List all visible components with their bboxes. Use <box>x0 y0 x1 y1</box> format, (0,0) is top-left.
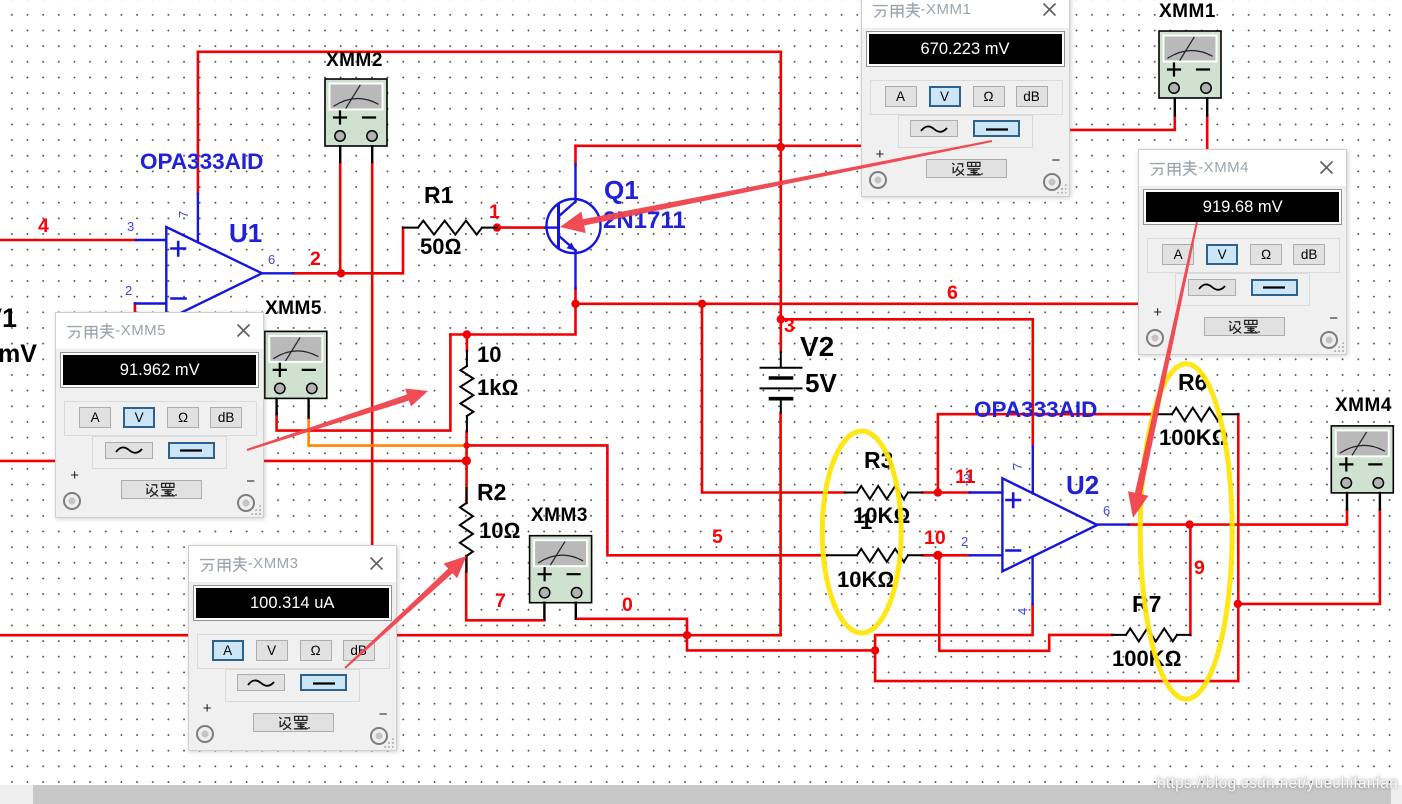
resistor R2 10ohm <box>460 488 473 572</box>
label XMM4 <box>1335 396 1392 415</box>
wire node 4 into U1 pin3 <box>0 239 136 242</box>
wire U1 pin7 riser <box>197 52 200 194</box>
wire R3 top right to pin3 junction <box>922 491 969 494</box>
resistor R1 50ohm <box>403 221 497 235</box>
node label 11 <box>955 468 976 488</box>
wire node 11 to R6 left <box>938 414 1157 492</box>
XMM5 stub wires <box>277 399 309 418</box>
label OPA333AID U2 <box>974 399 1097 422</box>
wire V1 feed left edge <box>0 460 55 463</box>
label V2 <box>800 333 834 361</box>
label 2N1711 <box>603 209 686 233</box>
red arrow to R2 <box>344 556 466 669</box>
wire node 1 R1 to Q1 base <box>497 226 546 229</box>
label U2 <box>1066 472 1099 498</box>
wire bottom rail <box>875 414 1238 681</box>
label R6 <box>1178 371 1207 394</box>
wire XMM2 right lead <box>371 162 374 544</box>
label XMM5 <box>265 299 322 318</box>
label 1kohm <box>477 377 518 399</box>
label 100K R7 <box>1112 648 1182 670</box>
multimeter window XMM3 <box>188 545 397 751</box>
wire V1 feed to R2 top junction <box>265 460 467 463</box>
wire emitter down to 1k top <box>450 304 575 335</box>
multimeter window XMM5 <box>55 312 264 518</box>
wire Q1 emitter stub <box>574 288 577 304</box>
wire top supply rail <box>198 50 781 53</box>
CJK glyph defs <box>0 0 1 1</box>
multimeter icon XMM4 <box>1331 426 1393 493</box>
wire node 5 from orange junction <box>467 445 827 555</box>
wire XMM4 minus run <box>1238 509 1380 604</box>
yellow ellipse around R6 R7 <box>1140 364 1232 699</box>
XMM2 stub wires <box>340 146 372 162</box>
resistor R3 bottom 10K <box>827 549 923 562</box>
wire R3 bottom right to pin2 junction <box>922 554 969 557</box>
resistor R7 100K <box>1112 628 1190 641</box>
node label 9 <box>1194 559 1205 579</box>
label R2 <box>477 481 506 504</box>
wire node 6 rail <box>576 302 1139 305</box>
label 10K bottom <box>837 569 894 591</box>
node label 0 <box>622 596 633 616</box>
label V1 partial <box>0 305 17 332</box>
red arrow to Q1 <box>560 140 992 233</box>
label 5V <box>805 370 837 396</box>
label 1 stray <box>860 511 872 533</box>
wire node 3 branch to R3 top <box>702 304 845 493</box>
label XMM3 <box>531 506 588 525</box>
resistor R3 top 10K <box>845 486 923 499</box>
wire XMM5 minus orange <box>309 418 467 446</box>
XMM3 stub wires <box>544 603 575 619</box>
label 10ohm <box>479 520 520 542</box>
wire V+ to U2 pin7 <box>781 319 1033 446</box>
wire node 10 to R7 left <box>939 555 1112 651</box>
XMM1 stub wires <box>1175 99 1207 116</box>
label R1 <box>424 184 453 207</box>
op-amp U2 <box>970 447 1129 604</box>
node label 5 <box>712 528 723 548</box>
op-amp U1 <box>135 194 293 320</box>
node label 2 <box>310 250 321 270</box>
node label 7 <box>495 592 506 612</box>
label U1 <box>229 220 262 246</box>
wire node 7 R2 to XMM3 plus <box>466 572 544 621</box>
node label 10 <box>924 529 946 549</box>
wire XMM2 left lead <box>339 162 342 273</box>
multimeter icon XMM5 <box>265 331 327 398</box>
wire U1 pin2 corner <box>134 304 137 314</box>
wire V2 bottom lead <box>779 413 782 635</box>
label XMM2 <box>326 51 383 70</box>
yellow ellipse around R3 <box>822 431 901 633</box>
node label 6 <box>947 284 958 304</box>
wire 1k to R2 column <box>465 335 468 572</box>
resistor 10 1kohm <box>460 351 473 432</box>
op-amp U2 pin numbers <box>961 463 1110 615</box>
resistor R6 100K <box>1157 408 1238 421</box>
wire node 9 R7 right riser <box>1189 525 1192 635</box>
wire Q1 collector riser <box>574 146 577 165</box>
watermark <box>1157 775 1398 793</box>
label 10K top <box>853 505 910 527</box>
XMM4 stub wires <box>1347 493 1380 509</box>
wire node 9 output to XMM4 plus <box>1129 509 1347 524</box>
red arrow to U2 output <box>1128 222 1198 518</box>
multimeter icon XMM1 <box>1159 31 1221 98</box>
wire ground rail left <box>0 634 781 637</box>
multimeter icon XMM3 <box>530 536 592 603</box>
wire collector rail to XMM1 window <box>576 145 861 148</box>
node label 4 <box>38 217 49 237</box>
battery V2 5V <box>761 352 802 413</box>
label R7 <box>1132 593 1161 616</box>
wire node 0 XMM3 minus <box>576 619 687 635</box>
multimeter window XMM4 <box>1138 149 1347 355</box>
label 50ohm <box>420 236 461 258</box>
node label 3 <box>784 317 795 337</box>
op-amp U1 pin numbers <box>125 211 275 298</box>
node label 1 <box>489 203 500 223</box>
label XMM1 <box>1159 2 1216 21</box>
scrollbar strip <box>0 785 1402 804</box>
multimeter window XMM1 <box>861 0 1070 197</box>
multimeter icon XMM2 <box>325 79 387 146</box>
wire V+ riser x780 <box>779 52 782 352</box>
label OPA333AID U1 <box>140 151 263 174</box>
label 10 <box>477 344 501 366</box>
label R3 <box>864 449 893 472</box>
transistor Q1 2N1711 <box>546 165 601 289</box>
label mV partial <box>0 342 37 367</box>
label Q1 <box>604 177 639 203</box>
label 100K R6 <box>1159 427 1229 449</box>
wire XMM1 minus lead <box>1206 115 1209 150</box>
wire node 2 U1 output <box>293 228 403 274</box>
red arrow to 1k resistor <box>247 389 428 452</box>
wire ground jog to pin4 <box>687 604 1033 651</box>
wire XMM5 plus path <box>277 335 451 431</box>
wire XMM1 plus lead <box>1069 115 1175 130</box>
